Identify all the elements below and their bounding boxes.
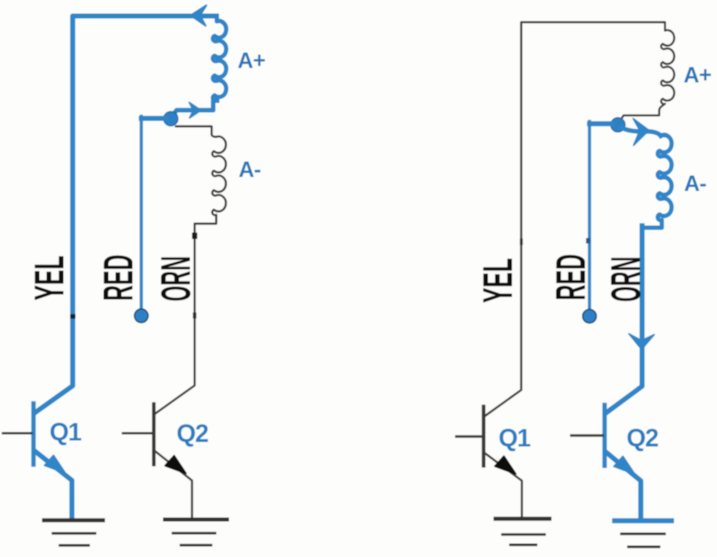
ground below Q1 bbox=[44, 518, 103, 522]
arrow current left on top rail bbox=[191, 5, 206, 25]
svg-text:A+: A+ bbox=[238, 48, 266, 73]
svg-text:A-: A- bbox=[684, 171, 706, 196]
wire top rail + YEL conductor + Q1 collector (idle, dark) bbox=[485, 22, 664, 416]
svg-text:YEL: YEL bbox=[474, 258, 521, 303]
svg-text:ORN: ORN bbox=[152, 256, 199, 302]
svg-text:Q2: Q2 bbox=[177, 420, 208, 448]
wire coil A+ bottom to center tap bbox=[172, 101, 218, 118]
transistor Q1 base lead bbox=[3, 432, 32, 434]
ground below Q2 bbox=[165, 518, 227, 522]
svg-text:A-: A- bbox=[239, 157, 261, 182]
wire center tap into A- (energized) bbox=[622, 128, 661, 136]
tick splice mark on YEL wire bbox=[70, 314, 75, 318]
node RED terminal dot bbox=[583, 309, 597, 323]
arrow current right into A+ bbox=[189, 102, 201, 118]
transistor Q1 base lead bbox=[456, 435, 482, 437]
tick splice mark lower ORN bbox=[193, 313, 196, 319]
arrow current right into A- bbox=[633, 119, 649, 146]
transistor Q2 base bar bbox=[152, 404, 156, 465]
wire top rail + YEL conductor + Q1 collector (blue energized path) bbox=[35, 16, 217, 413]
transistor Q2 base lead bbox=[571, 434, 603, 436]
wire ORN conductor (energized) bbox=[606, 226, 642, 413]
svg-text:Q2: Q2 bbox=[627, 425, 658, 453]
transistor Q1 emitter arrow bbox=[495, 456, 516, 474]
svg-text:RED: RED bbox=[547, 254, 594, 301]
node center tap junction bbox=[164, 112, 178, 126]
transistor Q1 emitter lead bbox=[485, 454, 522, 518]
transistor Q2 base bar (energized) bbox=[602, 405, 606, 466]
node RED terminal dot bbox=[135, 309, 149, 323]
transistor Q1 base bar bbox=[31, 404, 35, 465]
wire RED conductor bbox=[588, 122, 591, 311]
tick splice mark on ORN wire bbox=[192, 233, 197, 240]
transistor Q1 base bar bbox=[482, 407, 486, 466]
transistor Q2 emitter lead bbox=[156, 452, 193, 518]
svg-text:ORN: ORN bbox=[602, 257, 649, 303]
transistor Q2 emitter arrow bbox=[165, 456, 186, 474]
svg-text:Q1: Q1 bbox=[499, 425, 531, 453]
svg-text:YEL: YEL bbox=[26, 256, 73, 301]
tick splice mark on right YEL bbox=[520, 239, 523, 246]
node center tap junction bbox=[611, 118, 625, 132]
transistor Q2 emitter lead bbox=[607, 453, 641, 521]
coil A- winding with leads (idle, dark) bbox=[155, 126, 226, 413]
svg-text:RED: RED bbox=[95, 255, 142, 302]
transistor Q1 emitter lead bbox=[35, 452, 72, 520]
transistor Q1 emitter arrow bbox=[45, 455, 66, 473]
coil A- winding (energized) bbox=[642, 135, 671, 228]
ground below Q2 (top bar energized) bbox=[615, 518, 672, 523]
transistor Q2 emitter arrow bbox=[614, 456, 635, 474]
wire center tap to RED corner bbox=[590, 121, 613, 126]
coil A+ winding (idle, dark) bbox=[620, 22, 675, 121]
coil A+ winding (energized) bbox=[213, 16, 226, 101]
arrow current down ORN bbox=[629, 334, 654, 350]
svg-text:Q1: Q1 bbox=[50, 419, 82, 447]
tick splice mark on right RED bbox=[586, 238, 590, 244]
wire RED conductor bbox=[140, 116, 143, 310]
transistor Q2 base lead bbox=[123, 432, 152, 434]
wire center tap to RED corner bbox=[141, 116, 166, 121]
ground below Q1 bbox=[496, 517, 550, 521]
svg-text:A+: A+ bbox=[684, 63, 712, 88]
